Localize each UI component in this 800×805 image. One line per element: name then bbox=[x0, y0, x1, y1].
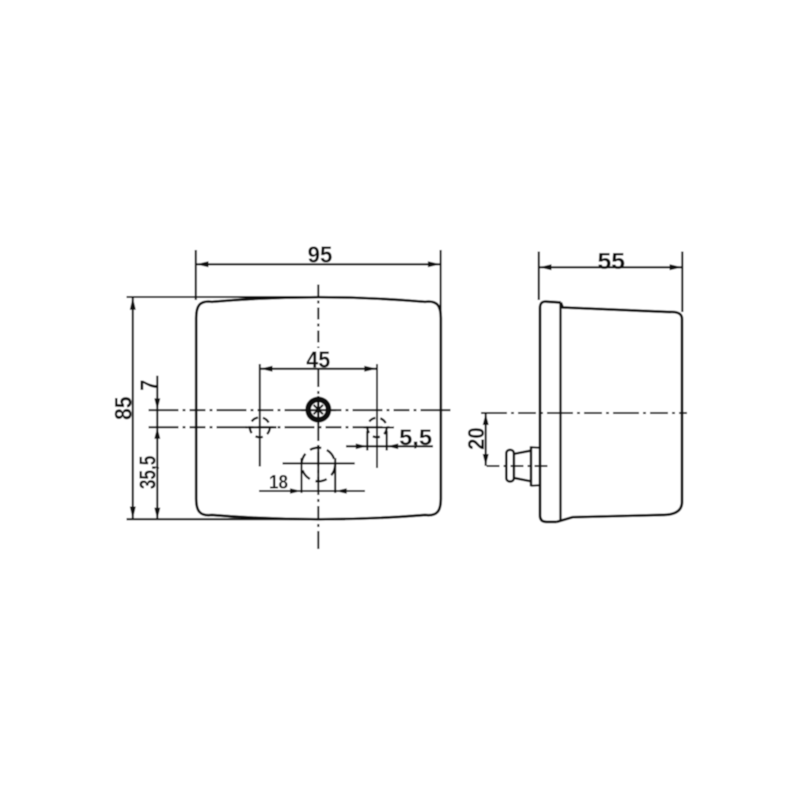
dimension 18 extension left bbox=[300, 458, 302, 493]
dimension 5,5 line bbox=[346, 445, 433, 447]
svg-text:5,5: 5,5 bbox=[399, 425, 432, 450]
stud base front edge bbox=[530, 446, 533, 486]
dimension 55 arrow left bbox=[539, 264, 552, 270]
left hole circle (dashed) bbox=[250, 417, 270, 437]
right hole circle (dashed) bbox=[367, 418, 386, 437]
dimension 45 line bbox=[260, 368, 377, 370]
solid centerline crossing at left hole bbox=[246, 426, 277, 428]
dimension 5,5 extension left bbox=[366, 431, 368, 451]
dimension 18 arrow left (points right) bbox=[290, 488, 302, 494]
side view housing outline bbox=[557, 303, 683, 522]
vertical centerline lower bbox=[317, 369, 319, 553]
dimension 5,5 extension right bbox=[386, 431, 388, 451]
side view lens outline bbox=[540, 302, 561, 522]
stud centerline bbox=[487, 465, 549, 467]
dimension 20 arrow top bbox=[483, 413, 489, 425]
dimension 55 extension right bbox=[681, 252, 683, 313]
svg-text:20: 20 bbox=[463, 427, 489, 450]
center hole star spokes bbox=[314, 403, 323, 416]
dimension 18 extension right bbox=[334, 458, 336, 493]
dimension 95 extension line right bbox=[440, 250, 442, 312]
solid centerline crossing at center hole (horizontal) bbox=[301, 409, 336, 411]
stud neck top bbox=[514, 451, 531, 454]
stud base bottom bbox=[531, 484, 540, 487]
dimension 95 extension line left bbox=[195, 250, 197, 300]
dimension 5,5 arrow left (points right) bbox=[356, 444, 368, 450]
stud neck bottom bbox=[514, 478, 531, 481]
dimension 7 arrow upper (tip down at centerline) bbox=[154, 398, 160, 410]
svg-text:85: 85 bbox=[111, 396, 138, 420]
dimension 20 arrow bottom bbox=[483, 454, 489, 466]
solid centerline crossing at bottom hole (vertical) bbox=[317, 445, 319, 481]
center hole ring bbox=[308, 399, 328, 419]
dimension 45 arrow left bbox=[260, 366, 273, 372]
dimension 55 extension left bbox=[538, 252, 540, 301]
dimension 95 arrow left bbox=[196, 261, 209, 267]
dimension 45 arrow right bbox=[364, 366, 377, 372]
front view body outline bbox=[196, 297, 441, 519]
dimension 95 arrow right bbox=[428, 261, 441, 267]
solid centerline crossing at right hole bbox=[364, 426, 395, 428]
dimension 35,5 arrow bottom bbox=[154, 508, 160, 520]
dimension 18 line bbox=[259, 490, 365, 492]
svg-text:45: 45 bbox=[306, 346, 330, 372]
dimension 55 line bbox=[539, 266, 683, 268]
dimension 45 extension/centerline left bbox=[259, 364, 261, 467]
svg-text:95: 95 bbox=[308, 242, 333, 268]
stud base top bbox=[531, 446, 540, 449]
stud cap bbox=[506, 450, 514, 482]
dimension 18 arrow right (points left) bbox=[335, 488, 347, 494]
svg-text:35,5: 35,5 bbox=[135, 455, 161, 489]
dimension 85 extension line bottom bbox=[127, 518, 346, 520]
svg-text:7: 7 bbox=[136, 380, 163, 391]
dimension 20 line bbox=[485, 413, 487, 466]
dimension 7 / 35,5 shared line bbox=[156, 376, 158, 519]
dimension 95 line bbox=[196, 263, 441, 265]
main horizontal centerline front view bbox=[149, 409, 455, 411]
dimension 5,5 arrow right (points left) bbox=[387, 444, 399, 450]
dimension 85 arrow top bbox=[130, 297, 136, 310]
vertical centerline upper bbox=[317, 285, 319, 349]
dimension 45 extension/centerline right bbox=[376, 364, 378, 468]
dimension 85 line bbox=[132, 297, 134, 519]
solid centerline crossing at center hole (vertical) bbox=[317, 396, 319, 424]
lens/housing boundary line bbox=[559, 303, 561, 522]
holes horizontal centerline bbox=[149, 426, 395, 428]
bottom hole horizontal centerline bbox=[283, 462, 355, 464]
dimension 85 extension line top bbox=[127, 296, 331, 298]
svg-text:55: 55 bbox=[598, 248, 626, 274]
svg-text:18: 18 bbox=[269, 471, 288, 493]
bottom hole circle (dashed) bbox=[302, 448, 336, 482]
dimension 55 arrow right bbox=[670, 264, 683, 270]
dimension 7 / 35,5 arrow (tip up at holes line) bbox=[154, 427, 160, 439]
dimension 85 arrow bottom bbox=[130, 507, 136, 520]
side view main centerline bbox=[481, 412, 687, 414]
